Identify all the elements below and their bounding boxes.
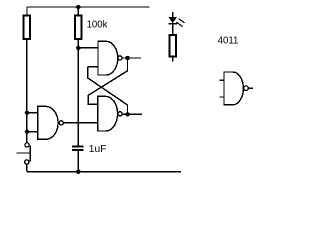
svg-text:4011: 4011: [218, 36, 239, 47]
node junction R2/gate input: [76, 46, 80, 50]
svg-text:1uF: 1uF: [89, 144, 107, 155]
node junction U1C input 1: [25, 111, 29, 115]
wire U1C output to U1B input: [63, 122, 97, 124]
wire gate U1A top input: [78, 47, 98, 49]
node U1A output bubble: [118, 56, 122, 60]
switch S1 actuator stem: [17, 152, 31, 154]
wire cross-couple U1A out to U1B input: [88, 58, 127, 104]
node U1C output bubble: [59, 121, 63, 125]
node junction R2 top rail: [76, 5, 80, 9]
wire cross-couple U1B out to U1A input: [88, 67, 128, 115]
wire R3 bottom stub: [172, 56, 174, 61]
wire left vertical (R1 bottom to switch): [26, 40, 28, 143]
node junction U1B output: [125, 112, 129, 116]
LED light ray 2: [176, 22, 182, 27]
switch S1 contact circle top: [25, 143, 29, 147]
switch S1 contact circle bottom: [25, 160, 29, 164]
LED light ray 1: [179, 19, 185, 23]
wire U1A lower input stub: [88, 66, 98, 68]
switch S1 actuator bar: [29, 145, 31, 161]
wire switch bottom to rail: [26, 164, 28, 172]
resistor R3 (LED series): [170, 35, 176, 56]
node junction U1C input 2: [25, 130, 29, 134]
wire U1D input stub 1: [219, 79, 224, 81]
wire R2 bottom vertical down to capacitor: [77, 40, 79, 146]
node U1D output bubble: [244, 86, 249, 91]
nand gate U1C (inverter): [38, 106, 58, 139]
wire U1D input stub 2: [219, 96, 224, 98]
capacitor C1 plate bottom: [72, 149, 84, 151]
nand gate U1B (latch bottom): [98, 96, 118, 131]
wire U1D output stub: [248, 87, 253, 89]
wire LED top lead: [172, 12, 174, 17]
LED D1 triangle: [169, 17, 176, 22]
wire top rail: [27, 6, 150, 8]
capacitor C1 plate top: [72, 146, 84, 148]
wire U1C input 1: [27, 112, 38, 114]
node U1B output bubble: [118, 112, 122, 116]
wire capacitor bottom lead: [77, 151, 79, 172]
resistor R2 100k: [75, 16, 82, 40]
nand gate U1D (spare): [224, 72, 243, 105]
node junction U1A output: [125, 56, 129, 60]
wire U1B output: [122, 113, 142, 115]
wire 100k resistor top lead: [77, 7, 79, 15]
wire bottom rail: [27, 171, 181, 173]
nand gate U1A (latch top): [98, 41, 118, 75]
resistor R1 (left): [23, 16, 30, 40]
LED D1 cathode bar: [168, 23, 177, 25]
wire left resistor top lead: [26, 7, 28, 15]
node junction capacitor rail: [76, 170, 80, 174]
wire U1C input 2: [27, 131, 38, 133]
svg-text:100k: 100k: [87, 20, 109, 31]
wire U1A output: [122, 57, 141, 59]
wire LED to resistor: [172, 24, 174, 35]
